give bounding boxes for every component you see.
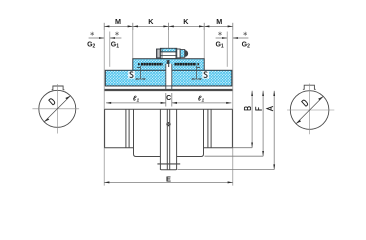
main sleeve/hub band — [105, 70, 232, 86]
grease fitting — [166, 122, 170, 126]
sleeve face short line left — [109, 32, 111, 67]
A dimension — [178, 91, 276, 170]
G2 left asterisk — [90, 32, 93, 36]
D dim line left — [44, 96, 70, 122]
keyway right — [303, 85, 316, 89]
left step down — [134, 109, 161, 156]
D dim line right — [296, 96, 323, 123]
S marker right: line, arrows, label — [191, 66, 209, 80]
svg-text:M: M — [115, 17, 121, 26]
C channel borders — [165, 64, 167, 90]
hub inner pair left — [125, 109, 127, 148]
G1 left asterisk — [115, 32, 118, 36]
svg-text:K: K — [148, 17, 154, 26]
svg-text:G1: G1 — [215, 41, 223, 49]
E dimension — [104, 175, 233, 184]
svg-text:K: K — [183, 17, 189, 26]
right hub edge — [231, 109, 233, 148]
keyway left — [52, 86, 65, 90]
bore line thick — [105, 89, 233, 91]
hub face extension line left (E extension) — [103, 30, 105, 186]
arrowheads of top dimension — [104, 25, 233, 27]
flange center pair — [166, 109, 168, 170]
center extension line — [168, 26, 170, 48]
teeth row right — [175, 63, 197, 66]
top line — [105, 108, 233, 110]
bolt washer right — [177, 49, 180, 58]
top dimension line M K K M — [104, 23, 233, 30]
left hub edge — [104, 109, 106, 148]
teeth row left — [141, 63, 163, 66]
(band notches added after band) — [133, 59, 204, 71]
l1 C l1 arrowheads — [106, 102, 231, 104]
svg-text:G1: G1 — [111, 41, 119, 49]
hub bottom left — [105, 147, 134, 149]
right step down — [177, 109, 204, 156]
svg-text:M: M — [216, 17, 222, 26]
bolt U top: hatched strip — [160, 48, 176, 52]
bore line thin — [105, 85, 232, 87]
center step mark below bolt — [167, 60, 170, 64]
svg-text:C: C — [166, 95, 171, 102]
bolt shank — [160, 52, 176, 59]
G1 right arrow — [216, 37, 228, 39]
tooth stub left of S gap — [138, 63, 140, 65]
B dimension — [232, 91, 253, 148]
bolt head — [157, 49, 161, 58]
nut cap — [185, 51, 188, 57]
sleeve face short line right — [226, 32, 228, 67]
G2 right arrow — [233, 37, 249, 39]
flange side right — [176, 109, 178, 170]
hub bottom right — [204, 147, 233, 149]
lower body outline (external view) — [105, 109, 233, 170]
left circle (hub side view D) — [32, 84, 79, 134]
crossing line (bolt silhouette) — [157, 163, 180, 165]
S marker left: line, arrows, label — [128, 66, 146, 80]
svg-text:G2: G2 — [87, 41, 95, 49]
hub face extension line right (E extension) — [232, 30, 234, 186]
right circle (hub side view D) — [287, 84, 334, 135]
tooth stub right of S gap — [197, 63, 199, 65]
K extension line left — [132, 26, 134, 58]
G2 right asterisk — [243, 32, 246, 36]
G2 left arrow — [89, 37, 105, 39]
l1 C l1 dimension line — [106, 93, 231, 107]
C channel white — [166, 64, 172, 90]
centerlines left — [32, 108, 79, 110]
hub inner pair right — [207, 109, 209, 148]
centerlines right — [287, 109, 334, 111]
flange side left — [159, 109, 161, 170]
nut right — [180, 50, 185, 58]
F dimension — [205, 91, 265, 156]
svg-text:G2: G2 — [242, 41, 250, 49]
svg-text:E: E — [166, 175, 171, 184]
G1 left arrow — [110, 37, 122, 39]
G1 right asterisk — [218, 32, 221, 36]
flange bottom — [160, 169, 176, 170]
K extension line right — [203, 26, 205, 58]
